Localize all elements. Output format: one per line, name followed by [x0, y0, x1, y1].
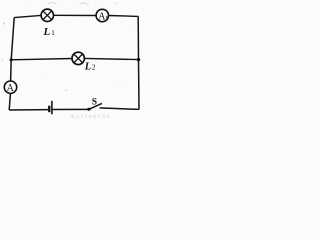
faint scan bleed-through marks (decorative) — [48, 3, 118, 6]
ammeter A2 — [4, 81, 16, 94]
svg-text:A: A — [7, 83, 15, 94]
wire top-right segment — [109, 15, 139, 18]
wire middle-left segment — [11, 59, 72, 60]
lamp L1 — [41, 9, 53, 21]
wire left rail upper — [11, 18, 15, 81]
svg-text:L: L — [84, 62, 91, 73]
wire top-left segment — [14, 15, 41, 17]
wire top-middle segment — [54, 14, 97, 16]
ammeter A1 — [96, 9, 108, 22]
label L2 — [84, 62, 96, 73]
svg-text:1: 1 — [105, 16, 108, 22]
label L1 — [43, 26, 56, 38]
battery: negative plate (short thick) — [48, 106, 50, 113]
wire middle-right segment — [85, 58, 139, 59]
svg-text:2: 2 — [92, 63, 96, 72]
svg-text:1: 1 — [51, 28, 55, 37]
wire bottom-right segment — [100, 108, 139, 110]
wire right rail — [137, 16, 140, 109]
svg-text:S: S — [92, 97, 97, 107]
node right junction — [137, 58, 140, 61]
switch S contact dot — [87, 108, 90, 111]
svg-text:maxfeno5n: maxfeno5n — [70, 113, 111, 120]
node left junction — [10, 58, 13, 61]
battery: positive plate (long thin) — [51, 101, 53, 114]
wire left rail lower — [9, 93, 10, 110]
svg-text:L: L — [43, 26, 51, 38]
wire bottom-left segment — [9, 109, 48, 111]
wire battery-to-switch segment — [52, 108, 88, 110]
switch S lever — [89, 103, 102, 109]
lamp L2 — [72, 52, 84, 64]
